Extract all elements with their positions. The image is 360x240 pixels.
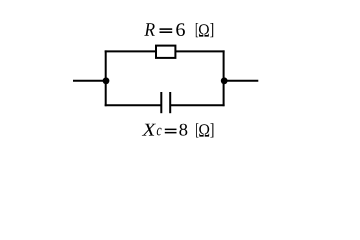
value 6 (top label) xyxy=(176,23,185,36)
wire: bottom right segment from capacitor xyxy=(170,104,224,106)
unit [ohm] (top label) xyxy=(196,23,213,37)
value label Xc xyxy=(142,124,162,136)
wire: right vertical branch xyxy=(223,50,225,106)
capacitor Xc left plate xyxy=(160,92,162,113)
capacitor Xc right plate xyxy=(169,92,171,113)
right lead wire xyxy=(224,80,259,82)
wire: top left segment to resistor xyxy=(105,50,156,52)
wire: top right segment from resistor xyxy=(175,50,224,52)
wire: bottom left segment to capacitor xyxy=(105,104,162,106)
wire: left vertical branch xyxy=(105,50,107,106)
node B (right junction dot) xyxy=(221,77,228,84)
value label R xyxy=(144,23,154,36)
node A (left junction dot) xyxy=(103,77,110,84)
resistor R (box symbol) xyxy=(156,46,175,58)
equals sign (top label) xyxy=(160,28,173,33)
value 8 (bottom label) xyxy=(179,124,187,136)
unit [ohm] (bottom label) xyxy=(196,123,213,137)
left lead wire xyxy=(73,80,106,82)
equals sign (bottom label) xyxy=(165,129,177,134)
